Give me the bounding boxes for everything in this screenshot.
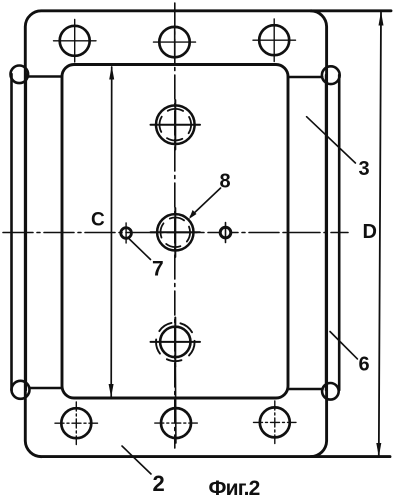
centre hole bottom (tapped, thread outside)	[151, 318, 201, 367]
bolt hole top-right	[253, 19, 296, 62]
left guide strip body	[12, 74, 26, 390]
horizontal centreline	[3, 232, 348, 234]
intermediate plate 3 edge, top-left segment	[28, 75, 62, 78]
svg-text:Фиг.2: Фиг.2	[209, 477, 260, 500]
leader for 3	[307, 117, 356, 163]
centre hole middle 8	[151, 208, 201, 257]
leader for 7	[129, 239, 151, 260]
vertical centreline	[174, 3, 176, 448]
left guide strip bottom head	[12, 381, 30, 399]
centre hole top (tapped)	[151, 100, 201, 150]
svg-text:8: 8	[220, 171, 231, 193]
bolt hole top-left	[54, 20, 97, 63]
right guide strip bottom head	[322, 383, 339, 400]
inner plate (top plate with centre holes)	[62, 65, 288, 399]
intermediate plate 3 edge, top-right segment	[288, 76, 322, 79]
bolt hole top-middle	[154, 26, 196, 59]
dimension C line	[109, 66, 115, 398]
right guide strip top head	[322, 66, 340, 84]
intermediate plate edge, bottom-right segment	[288, 388, 323, 391]
svg-text:2: 2	[153, 471, 165, 496]
svg-text:3: 3	[359, 158, 370, 180]
left guide strip top head	[10, 66, 28, 84]
svg-text:7: 7	[152, 258, 164, 281]
svg-text:6: 6	[359, 354, 370, 376]
centreline solid run between bottom hole and bottom bolt hole	[174, 366, 177, 443]
right guide strip 6 body	[326, 75, 339, 390]
dimension D line	[376, 11, 383, 457]
side pin hole (right)	[220, 223, 231, 243]
leader for 8	[189, 188, 221, 219]
svg-text:D: D	[363, 221, 377, 243]
leader for 6	[330, 332, 357, 359]
leader for 2	[122, 446, 151, 474]
bolt hole bottom-middle	[155, 408, 198, 438]
side pin hole 7 (left)	[121, 223, 132, 243]
bolt hole bottom-right	[254, 401, 297, 444]
intermediate plate edge, bottom-left segment	[30, 387, 62, 390]
plate 2 right edge	[311, 11, 327, 457]
bolt hole bottom-left	[55, 402, 98, 445]
svg-text:C: C	[91, 210, 105, 231]
